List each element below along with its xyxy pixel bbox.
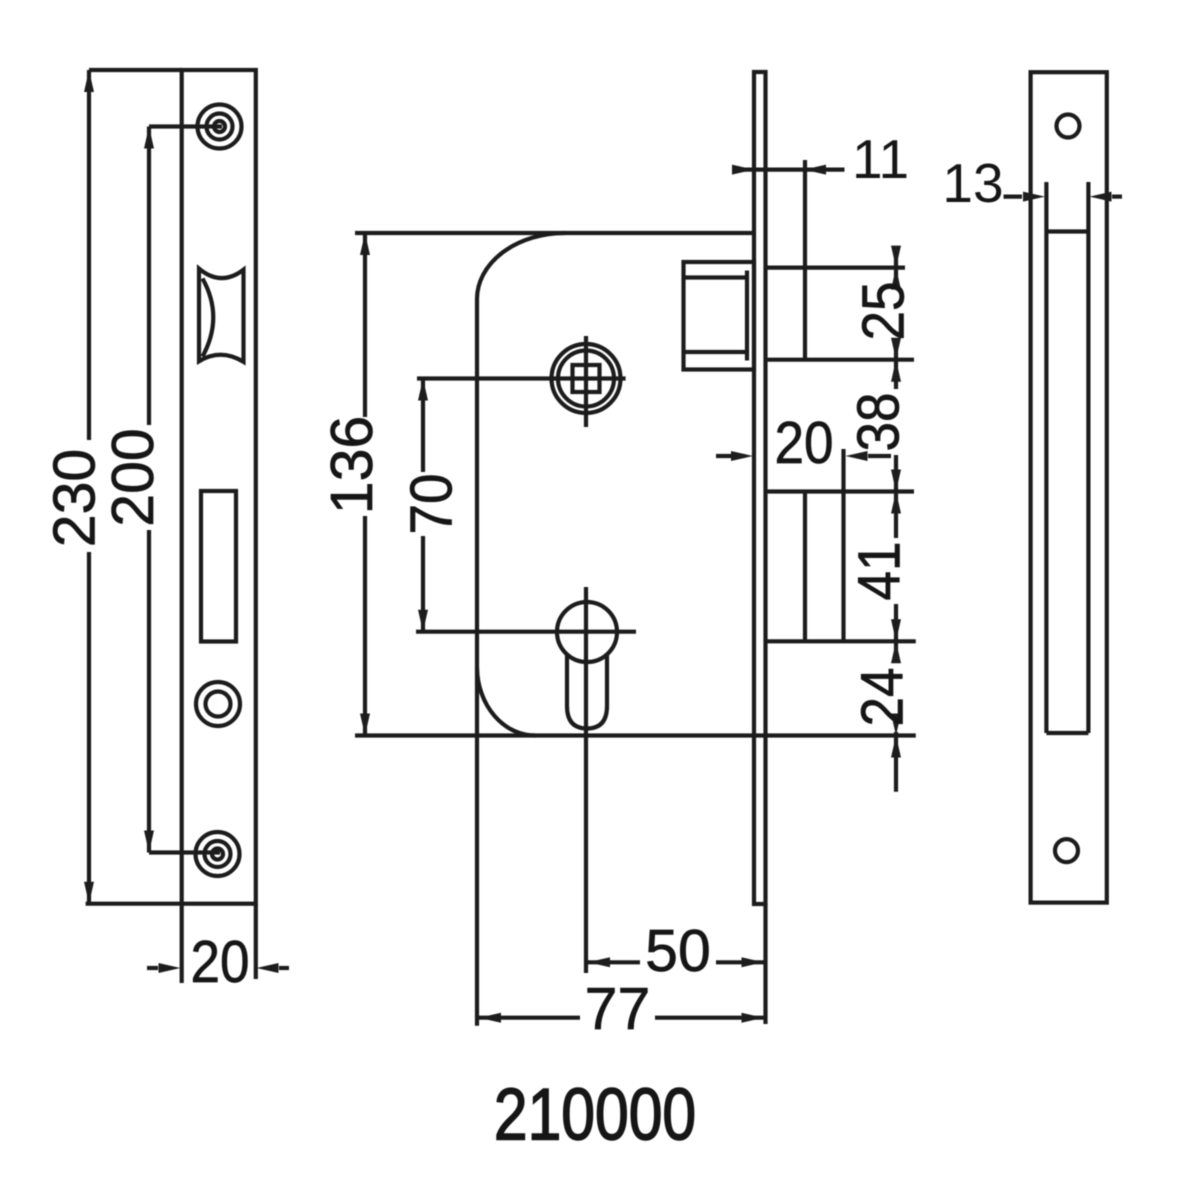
dimension 20 bolt throw	[716, 409, 891, 475]
screw centre leader top	[149, 124, 222, 128]
svg-text:13: 13	[942, 152, 1003, 214]
latch bolt protrusion	[766, 160, 914, 360]
latch pocket front	[199, 269, 244, 362]
deadbolt thrown	[766, 449, 916, 641]
dimension 11	[732, 128, 909, 190]
dimension 41	[846, 541, 912, 600]
dimension 38	[845, 392, 911, 451]
dimension 200	[100, 127, 166, 853]
strike hole top	[1057, 115, 1080, 138]
svg-text:70: 70	[399, 473, 465, 534]
strike hole bottom	[1055, 839, 1078, 862]
faceplate front view outline	[86, 70, 256, 983]
dimension 13	[942, 152, 1122, 214]
dimension 136	[319, 233, 385, 736]
forend plate edge view	[754, 72, 766, 1024]
svg-text:230: 230	[42, 449, 108, 547]
screw hole top	[198, 105, 242, 149]
lock case outline	[355, 233, 916, 1026]
screw centre leader bottom	[149, 850, 220, 854]
right dimension chain line	[891, 246, 901, 792]
strike slot	[1046, 182, 1088, 733]
svg-text:20: 20	[774, 409, 833, 475]
svg-text:50: 50	[645, 918, 711, 984]
dimension 25	[850, 281, 916, 340]
spindle follower	[417, 336, 626, 427]
svg-text:200: 200	[100, 428, 166, 526]
screw hole bottom	[196, 832, 240, 876]
screw hole middle	[196, 682, 240, 726]
strike plate outline	[1031, 72, 1107, 902]
dimension 77	[479, 976, 764, 1042]
svg-text:77: 77	[585, 976, 651, 1042]
dimension 230	[42, 70, 108, 904]
latch bolt body	[684, 262, 755, 370]
euro cylinder hole	[416, 587, 636, 973]
svg-text:210000: 210000	[494, 1074, 696, 1156]
dimension 24	[849, 667, 915, 726]
dimension 50 backset	[588, 918, 764, 984]
dimension 70	[399, 379, 465, 632]
svg-text:20: 20	[190, 928, 249, 994]
deadbolt slot front	[201, 491, 236, 642]
svg-text:136: 136	[319, 416, 385, 514]
dimension 20 faceplate width	[147, 928, 289, 994]
svg-text:41: 41	[846, 541, 912, 600]
svg-text:11: 11	[852, 128, 909, 190]
svg-text:24: 24	[849, 667, 915, 726]
svg-text:25: 25	[850, 281, 916, 340]
part number 210000	[494, 1074, 696, 1156]
svg-text:38: 38	[845, 392, 911, 451]
